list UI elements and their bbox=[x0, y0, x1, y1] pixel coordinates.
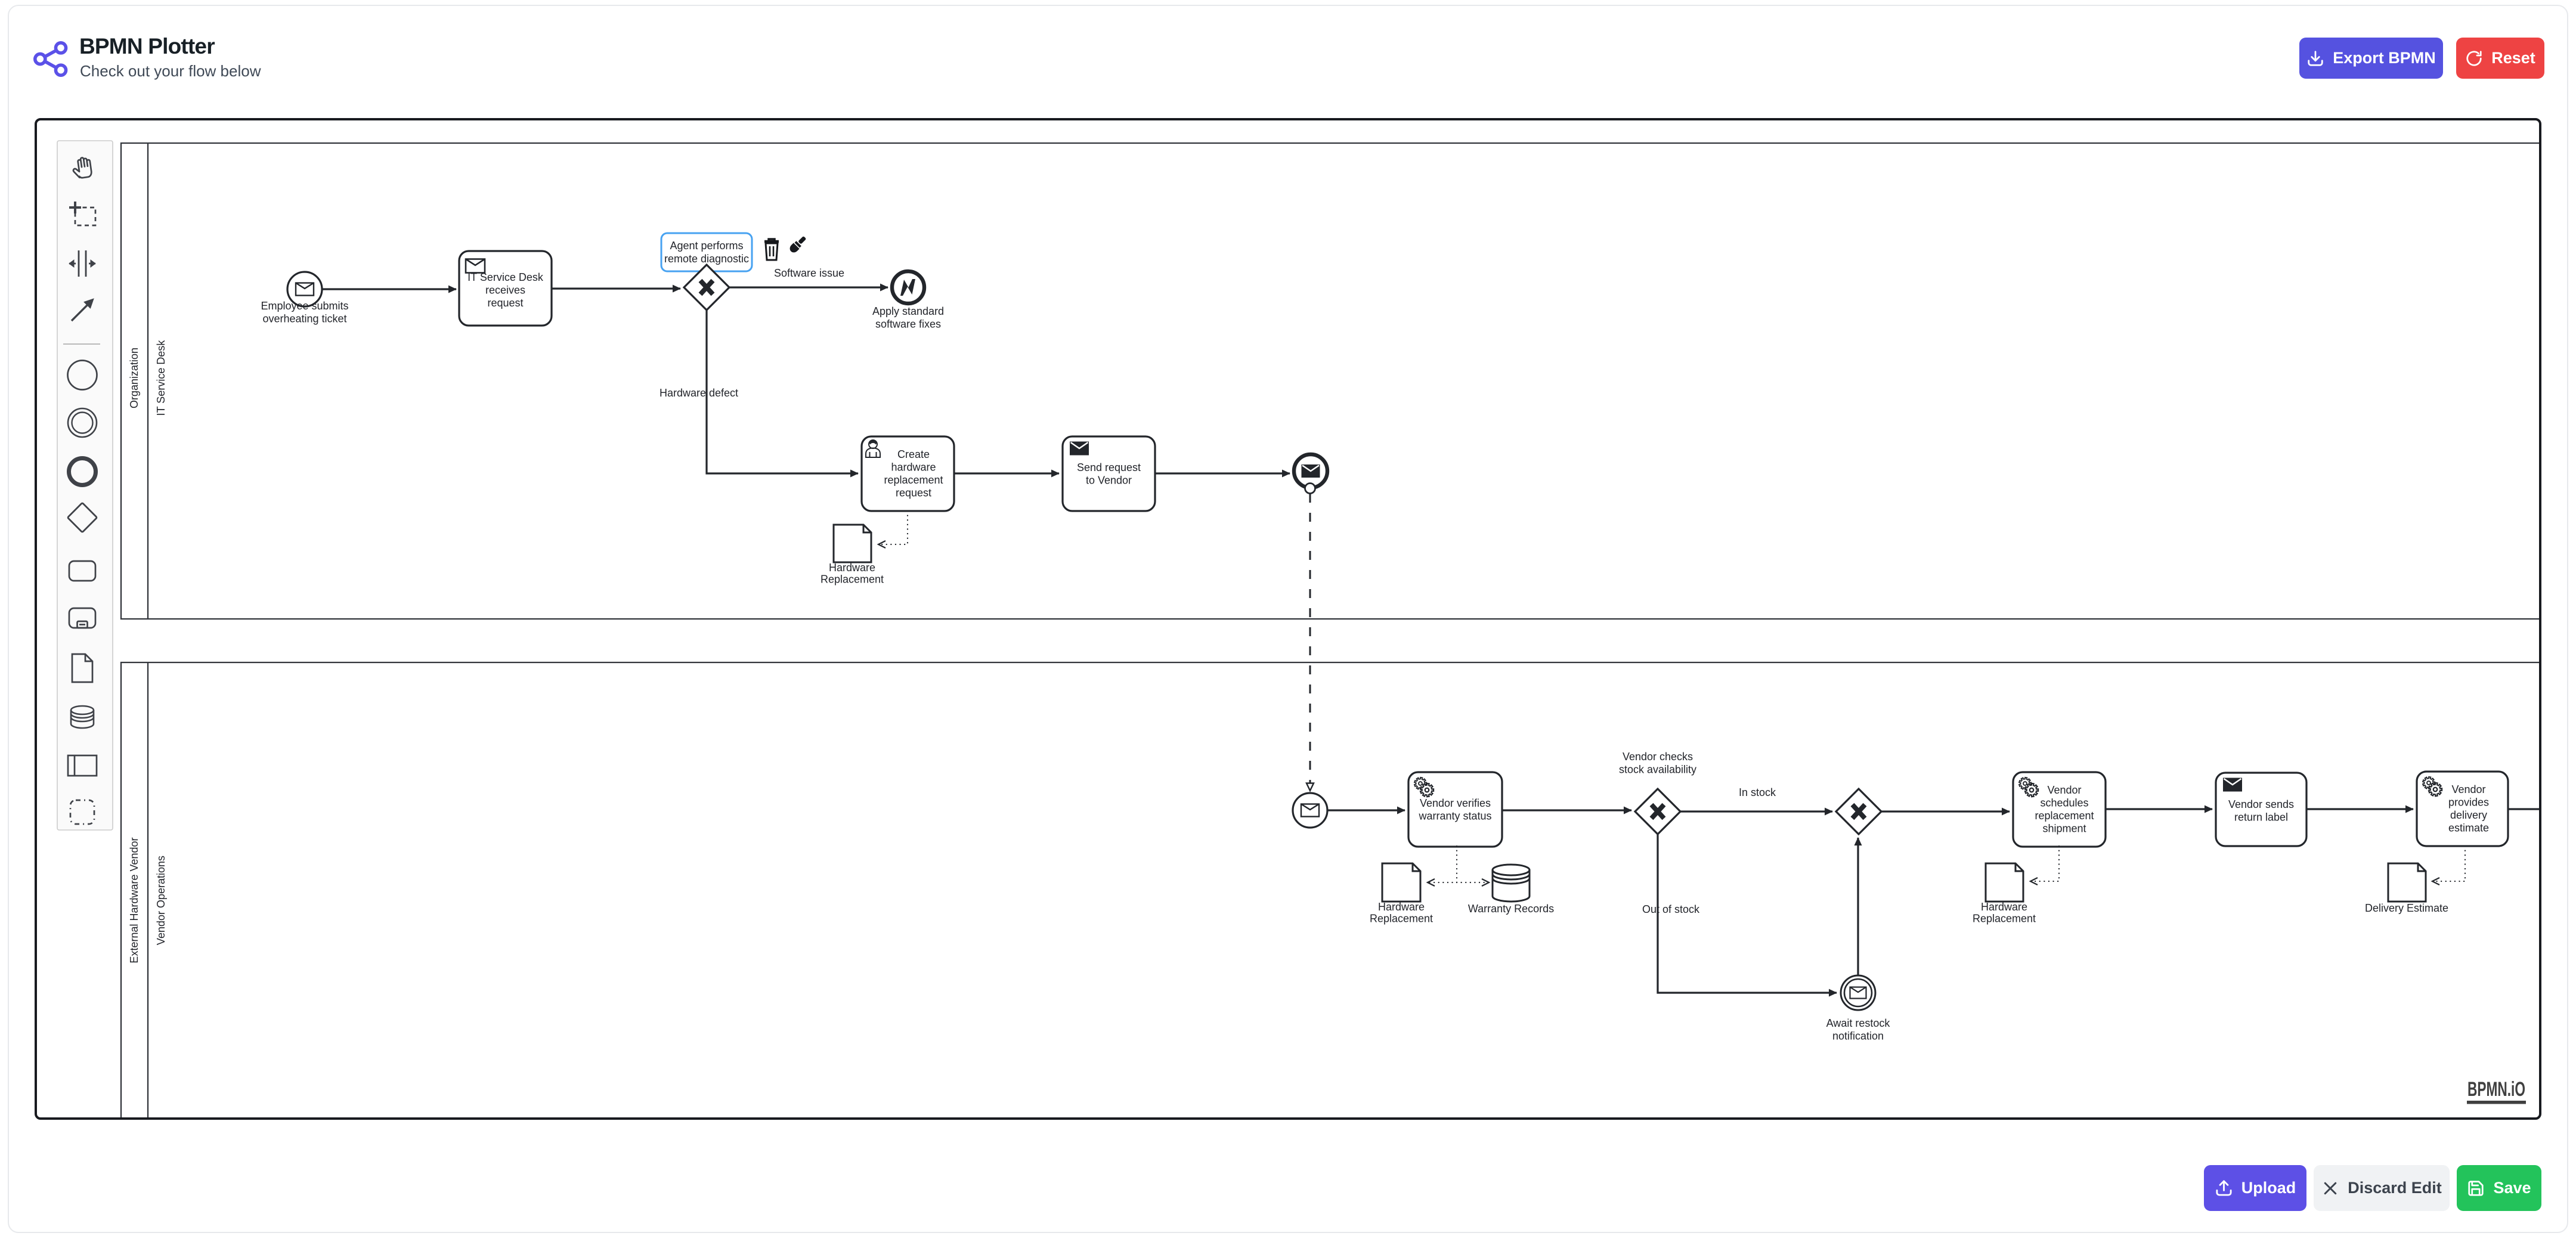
svg-text:Organization: Organization bbox=[128, 348, 140, 408]
gateway: Hardware or software? bbox=[684, 265, 729, 310]
svg-text:receives: receives bbox=[485, 284, 525, 296]
svg-text:remote diagnostic: remote diagnostic bbox=[664, 253, 749, 265]
svg-text:request: request bbox=[896, 487, 931, 498]
context icon: trash bbox=[764, 239, 779, 260]
svg-text:Agent performs: Agent performs bbox=[670, 240, 743, 252]
svg-text:schedules: schedules bbox=[2040, 797, 2088, 809]
wire: estimate flow exits right edge bbox=[2508, 808, 2541, 810]
svg-text:notification: notification bbox=[1832, 1030, 1884, 1042]
svg-text:Apply standard: Apply standard bbox=[872, 305, 944, 317]
palette: space tool bbox=[69, 250, 95, 277]
palette: group bbox=[70, 800, 94, 824]
svg-text:Vendor sends: Vendor sends bbox=[2228, 798, 2294, 810]
svg-text:replacement: replacement bbox=[2035, 810, 2094, 822]
Upload button bbox=[2204, 1165, 2306, 1211]
label: Out of stock bbox=[1642, 903, 1700, 915]
association: estimate to Delivery Estimate bbox=[2433, 846, 2465, 881]
label: Delivery Estimate label bbox=[2365, 902, 2448, 914]
svg-text:Hardware: Hardware bbox=[1378, 901, 1425, 913]
svg-text:stock availability: stock availability bbox=[1619, 763, 1696, 775]
svg-text:Await restock: Await restock bbox=[1826, 1017, 1891, 1029]
label: In stock bbox=[1739, 786, 1776, 798]
wire: task2 to Send request to Vendor bbox=[954, 472, 1059, 474]
task: Send request to Vendor bbox=[1063, 436, 1155, 511]
svg-text:shipment: shipment bbox=[2042, 822, 2086, 834]
wire: start to IT Service Desk receives request bbox=[322, 288, 456, 290]
label: Vendor checks stock availability bbox=[1619, 751, 1696, 776]
palette: end event bbox=[69, 459, 96, 485]
label: Software issue bbox=[774, 267, 844, 279]
palette container bbox=[57, 141, 113, 830]
svg-text:External Hardware Vendor: External Hardware Vendor bbox=[128, 837, 140, 963]
association: create request to Hardware Replacement bbox=[879, 511, 908, 544]
data object: Hardware Replacement (vendor 1) bbox=[1382, 863, 1420, 902]
header logo icon (share-2) bbox=[32, 38, 70, 80]
svg-text:IT Service Desk: IT Service Desk bbox=[155, 340, 167, 416]
label: Warranty Records bbox=[1468, 903, 1554, 915]
task: Vendor verifies warranty status bbox=[1408, 772, 1502, 847]
association: schedule to Hardware Replacement bbox=[2031, 846, 2059, 881]
Save button bbox=[2457, 1165, 2541, 1211]
svg-text:Hardware defect: Hardware defect bbox=[660, 387, 738, 399]
wire: merge to schedule bbox=[1881, 810, 2010, 812]
task: IT Service Desk receives request bbox=[459, 251, 552, 326]
palette: start event bbox=[68, 361, 97, 390]
svg-text:return label: return label bbox=[2234, 811, 2288, 823]
task: Vendor sends return label bbox=[2216, 773, 2306, 846]
message flow: end event to vendor start bbox=[1305, 484, 1315, 494]
svg-text:In stock: In stock bbox=[1739, 786, 1776, 798]
wire: task3 to message end bbox=[1155, 472, 1290, 474]
svg-text:Vendor: Vendor bbox=[2047, 784, 2081, 796]
svg-text:overheating ticket: overheating ticket bbox=[262, 312, 346, 324]
data store: Warranty Records bbox=[1493, 865, 1529, 902]
svg-text:replacement: replacement bbox=[884, 474, 943, 486]
svg-text:Hardware: Hardware bbox=[1981, 901, 2027, 913]
svg-text:Replacement: Replacement bbox=[1973, 912, 2036, 924]
palette: subprocess bbox=[69, 608, 95, 628]
svg-text:Delivery Estimate: Delivery Estimate bbox=[2365, 902, 2448, 914]
gateway: merge bbox=[1836, 789, 1881, 834]
Reset button bbox=[2456, 38, 2544, 79]
svg-text:provides: provides bbox=[2448, 796, 2489, 808]
task: Vendor provides delivery estimate bbox=[2417, 772, 2508, 846]
svg-text:warranty status: warranty status bbox=[1418, 810, 1491, 822]
end event: message end (send to vendor) bbox=[1294, 454, 1327, 488]
palette: data object bbox=[72, 654, 92, 682]
wire: gateway to Apply standard software fixes bbox=[729, 286, 888, 288]
palette: global connect tool bbox=[72, 299, 94, 321]
svg-text:software fixes: software fixes bbox=[875, 318, 941, 330]
svg-text:IT Service Desk: IT Service Desk bbox=[467, 271, 544, 283]
label: Employee submits overheating ticket bbox=[261, 300, 348, 325]
label: Hardware Replacement (vendor 1) label bbox=[1370, 901, 1433, 925]
gateway: Vendor checks stock availability bbox=[1635, 789, 1680, 834]
wire: Out of stock down-right to Await restock bbox=[1658, 834, 1837, 993]
Discard Edit button bbox=[2314, 1165, 2450, 1211]
svg-text:Out of stock: Out of stock bbox=[1642, 903, 1700, 915]
association: verify to Hardware Replacement + Warranty Records bbox=[1428, 846, 1457, 882]
svg-text:request: request bbox=[487, 297, 523, 309]
task: Create hardware replacement request bbox=[862, 436, 954, 511]
wire: gateway down to Create hardware replacement request bbox=[707, 310, 858, 473]
palette: participant bbox=[68, 755, 97, 776]
svg-text:Vendor checks: Vendor checks bbox=[1623, 751, 1693, 763]
svg-text:Employee submits: Employee submits bbox=[261, 300, 348, 312]
data object: Delivery Estimate bbox=[2388, 863, 2426, 902]
palette: lasso tool bbox=[69, 202, 95, 225]
wire: vendor start to verify bbox=[1327, 809, 1405, 811]
data object: Hardware Replacement (IT) bbox=[834, 525, 871, 562]
svg-text:estimate: estimate bbox=[2448, 822, 2489, 834]
bpmn.io watermark logo bbox=[2467, 1078, 2526, 1104]
label: Apply standard software fixes bbox=[872, 305, 944, 330]
svg-text:Software issue: Software issue bbox=[774, 267, 844, 279]
svg-text:Vendor Operations: Vendor Operations bbox=[155, 856, 167, 945]
svg-text:delivery: delivery bbox=[2450, 809, 2487, 821]
svg-text:BPMN.iO: BPMN.iO bbox=[2467, 1078, 2525, 1101]
label: Await restock notification bbox=[1826, 1017, 1891, 1042]
intermediate event: Await restock notification bbox=[1841, 975, 1875, 1010]
svg-text:hardware: hardware bbox=[891, 461, 936, 473]
data object: Hardware Replacement (vendor 2) bbox=[1986, 863, 2023, 902]
end event: Apply standard software fixes (error) bbox=[892, 271, 924, 303]
palette: hand tool bbox=[72, 157, 92, 179]
task: Vendor schedules replacement shipment bbox=[2013, 772, 2106, 847]
svg-text:Vendor verifies: Vendor verifies bbox=[1420, 797, 1491, 809]
wire: send label to provide estimate bbox=[2306, 808, 2413, 810]
svg-text:Hardware: Hardware bbox=[829, 562, 875, 574]
palette: intermediate event bbox=[68, 408, 97, 437]
label: Hardware Replacement (vendor 2) label bbox=[1973, 901, 2036, 925]
wire: task1 to gateway bbox=[552, 287, 680, 289]
svg-text:to Vendor: to Vendor bbox=[1086, 474, 1132, 486]
wire: In stock to merge gateway bbox=[1680, 810, 1832, 812]
palette: data store bbox=[71, 706, 94, 728]
pool: Organization bbox=[121, 143, 2541, 619]
Export BPMN button bbox=[2299, 38, 2443, 79]
svg-text:Replacement: Replacement bbox=[1370, 912, 1433, 924]
palette: gateway bbox=[67, 503, 97, 532]
selected label: Agent performs remote diagnostic bbox=[661, 233, 752, 271]
svg-text:Create: Create bbox=[897, 448, 930, 460]
svg-text:Send request: Send request bbox=[1077, 462, 1141, 473]
wire: schedule to send return label bbox=[2106, 808, 2212, 810]
wire: verify to stock gateway bbox=[1502, 809, 1631, 811]
header title bbox=[79, 34, 215, 59]
palette: task bbox=[69, 561, 95, 581]
svg-text:Vendor: Vendor bbox=[2451, 783, 2485, 795]
svg-text:Warranty Records: Warranty Records bbox=[1468, 903, 1554, 915]
svg-text:Replacement: Replacement bbox=[821, 573, 884, 585]
start event: vendor message start bbox=[1293, 793, 1327, 828]
label: Hardware defect bbox=[660, 387, 738, 399]
label: Hardware Replacement (IT) label bbox=[821, 562, 884, 586]
pool: External Hardware Vendor bbox=[121, 662, 2541, 1121]
start event: Employee submits overheating ticket bbox=[287, 272, 322, 306]
wire: await up to merge gateway bbox=[1857, 838, 1859, 975]
context icon: brush bbox=[788, 234, 808, 254]
